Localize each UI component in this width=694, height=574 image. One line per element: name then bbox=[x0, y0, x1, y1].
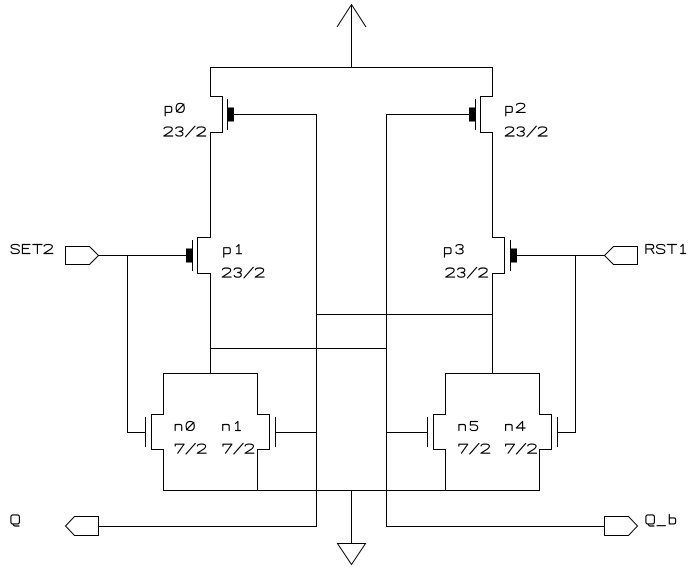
wire p0 drain to p1 source bbox=[210, 132, 212, 238]
node Q_b rail bbox=[386, 114, 388, 527]
label n0 name bbox=[175, 421, 194, 430]
transistor n0 (nmos 7/2) bbox=[146, 373, 165, 491]
transistor n5 (nmos 7/2) bbox=[428, 373, 447, 491]
wire p3 gate to RST1 bbox=[517, 255, 605, 257]
label n4 name bbox=[506, 421, 525, 430]
label p2 size 23/2 bbox=[505, 126, 547, 137]
label p3 name bbox=[445, 245, 464, 258]
transistor p1 (pmos 23/2) bbox=[186, 237, 211, 274]
wire ground bus bbox=[163, 490, 540, 492]
wire SET2 to p1 gate bbox=[98, 255, 186, 257]
wire n0/n1 drain bus bbox=[163, 373, 258, 375]
wire Q rail to port Q bbox=[98, 526, 317, 528]
port Q (output) bbox=[66, 517, 99, 536]
transistor p2 (pmos 23/2) bbox=[469, 96, 493, 133]
label n0 size 7/2 bbox=[175, 443, 206, 454]
port Q_b (output) bbox=[605, 517, 638, 536]
wire n5 gate to Q_b rail bbox=[386, 432, 428, 434]
wire VDD bus to p2 source bbox=[492, 67, 494, 97]
label p1 name bbox=[224, 245, 242, 258]
wire p3 drain to nmos pair bbox=[492, 273, 494, 374]
label n4 size 7/2 bbox=[506, 443, 537, 454]
label p0 size 23/2 bbox=[164, 126, 206, 137]
ground symbol bbox=[338, 490, 366, 565]
label p1 size 23/2 bbox=[222, 267, 264, 278]
label n5 name bbox=[459, 422, 478, 431]
power VDD arrow bbox=[337, 4, 366, 68]
wire p2 drain to p3 source bbox=[492, 132, 494, 238]
transistor n1 (nmos 7/2) bbox=[257, 373, 276, 491]
wire n5/n4 drain bus bbox=[445, 373, 540, 375]
wire VDD bus bbox=[210, 67, 493, 69]
wire SET2 branch to n0 gate bbox=[127, 255, 129, 433]
label n1 size 7/2 bbox=[223, 443, 254, 454]
label n1 name bbox=[223, 421, 241, 430]
wire cross-couple p1 drain to Q_b rail bbox=[210, 348, 387, 350]
label RST1 port name bbox=[646, 244, 686, 253]
wire RST1 branch to n4 gate bbox=[575, 255, 577, 433]
label p0 name bbox=[165, 103, 184, 116]
label n5 size 7/2 bbox=[459, 443, 490, 454]
transistor n4 (nmos 7/2) bbox=[539, 373, 558, 491]
label p2 name bbox=[506, 103, 525, 116]
port SET2 (input) bbox=[66, 247, 99, 265]
transistor p0 (pmos 23/2) bbox=[210, 96, 234, 133]
label p3 size 23/2 bbox=[446, 267, 488, 278]
wire n1 gate to Q rail bbox=[275, 432, 317, 434]
label Q port name bbox=[11, 515, 20, 526]
port RST1 (input) bbox=[605, 247, 638, 265]
transistor p3 (pmos 23/2) bbox=[492, 237, 517, 274]
wire p1 drain to nmos pair bbox=[210, 273, 212, 374]
wire n0 gate bbox=[127, 432, 146, 434]
label SET2 port name bbox=[11, 244, 53, 253]
wire VDD bus to p0 source bbox=[210, 67, 212, 97]
label Q_b port name bbox=[646, 514, 676, 526]
wire Q_b rail to port Q_b bbox=[386, 526, 605, 528]
node Q rail bbox=[316, 114, 318, 527]
wire p2 gate to node Q_b rail bbox=[386, 114, 469, 116]
wire cross-couple Q rail to p3 drain bbox=[316, 314, 493, 316]
wire n4 gate bbox=[557, 432, 576, 434]
wire p0 gate to node Q rail bbox=[234, 114, 317, 116]
